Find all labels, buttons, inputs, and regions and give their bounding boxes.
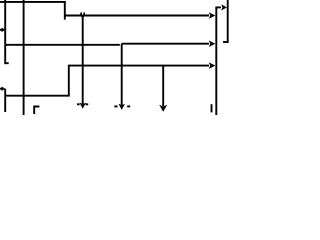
node A vertical riser x=5 upper [4, 0, 6, 64]
arrowhead down at bottom of x=82.7 [79, 103, 86, 109]
wire net4 horizontal y=95.7 [5, 95, 70, 97]
wire net2 horizontal right part y=43.7 [122, 43, 209, 45]
wire long vertical riser x=23.5 [23, 0, 25, 115]
wire vertical drop x=121.7 to bottom arrow [121, 44, 123, 105]
arrowhead down at bottom of x=121.7 [118, 104, 125, 110]
wire dash left of arrow at x=121.7 [114, 105, 117, 107]
wire vertical drop x=82.7 from net1 [82, 16, 84, 105]
wire net1 horizontal y=15.5 [65, 15, 209, 17]
wire right vertical rail x=216.3 [215, 7, 217, 115]
arrowhead small left input upper [2, 28, 6, 33]
wire vertical x=5 lower [4, 89, 6, 112]
wire net3 horizontal y=65.6 [69, 65, 209, 67]
wire left input stub upper [0, 29, 3, 31]
arrowhead right top-right link [221, 4, 227, 10]
wire foot at bottom of x=5 riser [5, 62, 9, 64]
wire foot at bottom of far right rail [223, 41, 229, 43]
wire short tick bottom right [211, 104, 213, 112]
wire partial box corner bottom [34, 107, 39, 115]
arrowhead down at bottom of x=163.2 [159, 105, 167, 112]
arrowhead right into rail net2 [209, 40, 216, 47]
arrowhead small left input lower [2, 86, 6, 91]
wire far right vertical rail x=227.7 [227, 0, 229, 43]
arrowhead junction marker nub left at x=82.7 on net1 [80, 12, 82, 15]
wire step vertical at x=65 with overshoot stub [64, 1, 66, 20]
wire vertical drop x=163.2 from net3 [162, 66, 164, 107]
arrowhead right into rail net3 [209, 62, 216, 69]
wire top horizontal bus segment [0, 1, 66, 3]
arrowhead right into rail net1 [209, 12, 216, 19]
wire vertical x=68.8 corner down [68, 65, 70, 96]
wire left input stub lower [0, 88, 3, 90]
wire dash right of arrow at x=121.7 [127, 105, 130, 107]
wire dash left of arrow at x=82.7 [77, 103, 80, 105]
wire net2 horizontal left part y=44.8 [5, 44, 120, 46]
arrowhead junction marker body below net1 [81, 16, 85, 19]
wire top-right link horizontal y=7.4 [215, 6, 221, 8]
arrowhead junction marker nub right at x=82.7 on net1 [83, 12, 85, 15]
wire dash right of arrow at x=82.7 [86, 103, 89, 105]
